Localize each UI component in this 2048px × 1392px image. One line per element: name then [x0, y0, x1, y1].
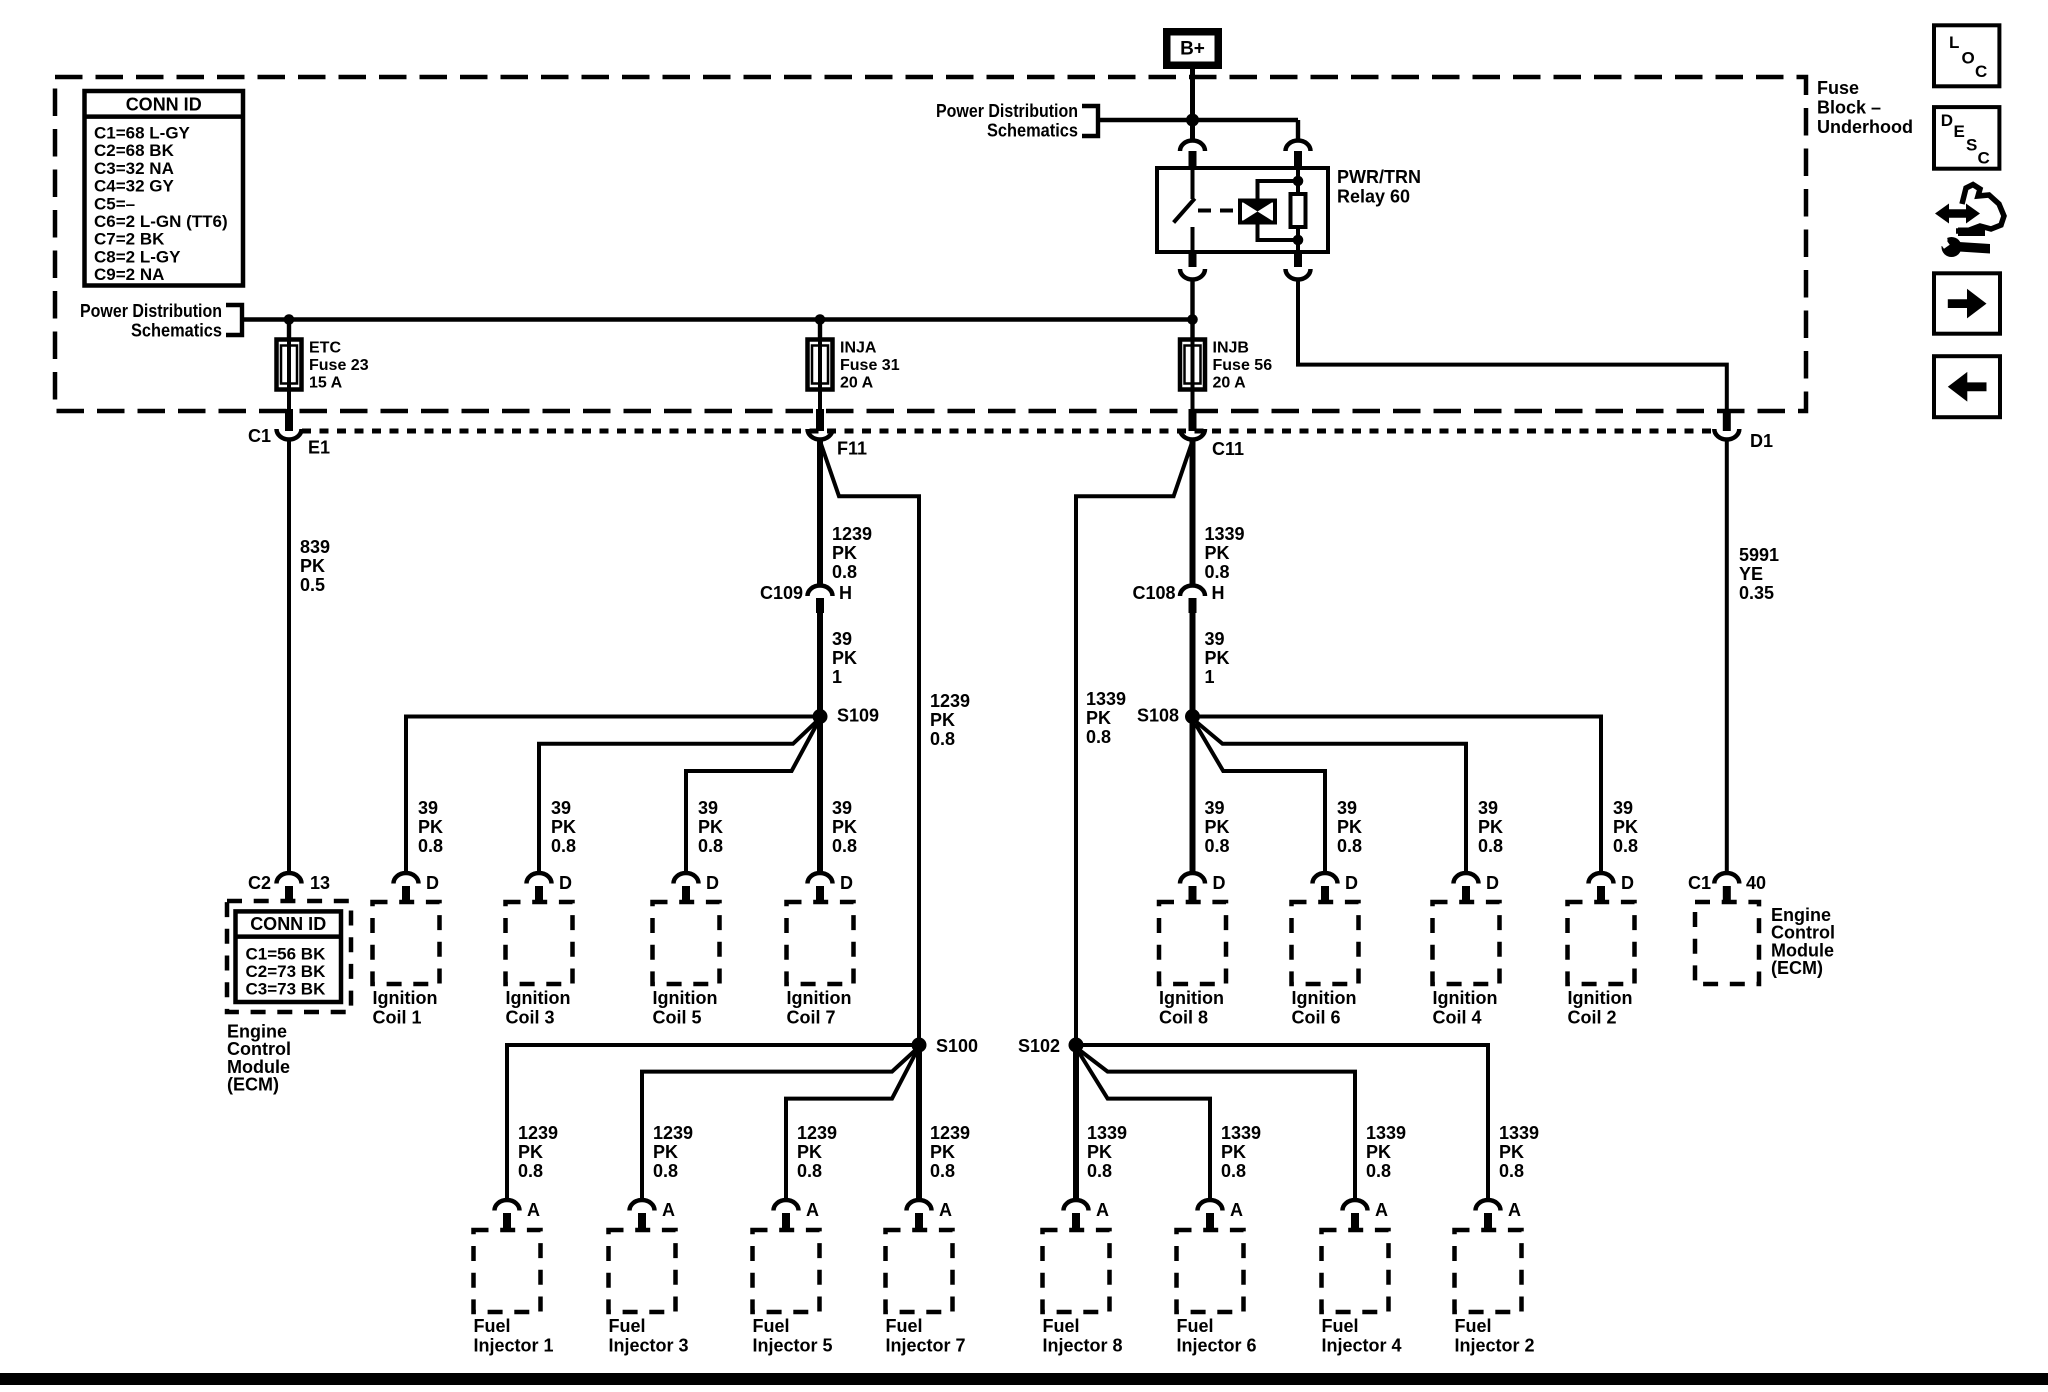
svg-text:Schematics: Schematics	[987, 121, 1078, 141]
svg-text:CONN ID: CONN ID	[250, 914, 326, 934]
svg-text:D: D	[1941, 111, 1953, 130]
svg-text:0.8: 0.8	[418, 836, 443, 856]
svg-text:1239: 1239	[653, 1123, 693, 1143]
svg-text:A: A	[1096, 1200, 1109, 1220]
svg-text:D: D	[1213, 873, 1226, 893]
svg-text:S108: S108	[1137, 706, 1179, 726]
svg-text:C3=32 NA: C3=32 NA	[94, 159, 174, 178]
svg-text:PK: PK	[1337, 817, 1362, 837]
svg-text:B+: B+	[1180, 39, 1205, 60]
svg-text:Coil 7: Coil 7	[787, 1008, 836, 1028]
svg-text:PK: PK	[1205, 817, 1230, 837]
svg-text:1239: 1239	[930, 1123, 970, 1143]
svg-text:Ignition: Ignition	[506, 988, 571, 1008]
svg-text:0.8: 0.8	[930, 729, 955, 749]
svg-text:YE: YE	[1739, 564, 1763, 584]
svg-text:A: A	[806, 1200, 819, 1220]
svg-text:0.8: 0.8	[832, 836, 857, 856]
svg-text:1239: 1239	[930, 691, 970, 711]
svg-text:C2: C2	[248, 873, 271, 893]
svg-text:INJB: INJB	[1213, 340, 1249, 357]
svg-text:D: D	[426, 873, 439, 893]
svg-text:C3=73 BK: C3=73 BK	[246, 980, 327, 999]
svg-text:Coil 1: Coil 1	[373, 1008, 422, 1028]
svg-text:Fuse: Fuse	[1817, 78, 1859, 98]
svg-text:C1: C1	[1688, 873, 1711, 893]
svg-text:PK: PK	[1221, 1142, 1246, 1162]
svg-text:C8=2 L-GY: C8=2 L-GY	[94, 247, 181, 266]
svg-text:0.8: 0.8	[1499, 1161, 1524, 1181]
svg-text:C: C	[1975, 62, 1987, 81]
svg-text:1339: 1339	[1221, 1123, 1261, 1143]
svg-text:839: 839	[300, 537, 330, 557]
svg-text:D: D	[706, 873, 719, 893]
svg-text:5991: 5991	[1739, 545, 1779, 565]
svg-text:Coil 3: Coil 3	[506, 1008, 555, 1028]
svg-text:PK: PK	[1087, 1142, 1112, 1162]
svg-text:Fuel: Fuel	[1322, 1316, 1359, 1336]
svg-text:0.8: 0.8	[930, 1161, 955, 1181]
svg-text:C6=2 L-GN (TT6): C6=2 L-GN (TT6)	[94, 212, 228, 231]
svg-text:PK: PK	[698, 817, 723, 837]
svg-text:INJA: INJA	[840, 340, 877, 357]
svg-text:PK: PK	[1086, 708, 1111, 728]
svg-text:PK: PK	[930, 1142, 955, 1162]
svg-text:PK: PK	[1205, 648, 1230, 668]
svg-text:1239: 1239	[832, 524, 872, 544]
svg-text:Relay 60: Relay 60	[1337, 187, 1410, 207]
svg-text:PK: PK	[1205, 543, 1230, 563]
svg-text:0.8: 0.8	[832, 562, 857, 582]
svg-text:20 A: 20 A	[840, 375, 874, 392]
svg-text:C109: C109	[760, 583, 803, 603]
svg-text:E: E	[1954, 122, 1965, 141]
svg-text:PK: PK	[418, 817, 443, 837]
svg-text:Injector 3: Injector 3	[609, 1336, 689, 1356]
svg-text:Coil 8: Coil 8	[1159, 1008, 1208, 1028]
svg-text:F11: F11	[837, 439, 867, 459]
svg-text:0.8: 0.8	[653, 1161, 678, 1181]
svg-text:0.8: 0.8	[1613, 836, 1638, 856]
svg-text:PK: PK	[518, 1142, 543, 1162]
svg-text:Coil 2: Coil 2	[1568, 1008, 1617, 1028]
svg-text:Ignition: Ignition	[653, 988, 718, 1008]
svg-text:0.8: 0.8	[1205, 836, 1230, 856]
svg-text:PK: PK	[653, 1142, 678, 1162]
svg-text:20 A: 20 A	[1213, 375, 1247, 392]
svg-text:39: 39	[1205, 629, 1225, 649]
svg-text:PWR/TRN: PWR/TRN	[1337, 167, 1421, 187]
svg-text:Injector 4: Injector 4	[1322, 1336, 1402, 1356]
svg-text:C1: C1	[248, 426, 271, 446]
svg-text:PK: PK	[1499, 1142, 1524, 1162]
svg-text:D: D	[559, 873, 572, 893]
svg-text:Injector 1: Injector 1	[474, 1336, 554, 1356]
svg-text:A: A	[1230, 1200, 1243, 1220]
svg-text:PK: PK	[832, 648, 857, 668]
svg-text:Fuse 31: Fuse 31	[840, 357, 900, 374]
svg-text:39: 39	[1205, 798, 1225, 818]
svg-text:13: 13	[310, 873, 330, 893]
svg-text:0.5: 0.5	[300, 575, 325, 595]
svg-text:Fuel: Fuel	[474, 1316, 511, 1336]
svg-text:Schematics: Schematics	[131, 320, 222, 340]
svg-text:39: 39	[551, 798, 571, 818]
svg-text:Fuel: Fuel	[609, 1316, 646, 1336]
svg-text:C1=56 BK: C1=56 BK	[246, 945, 327, 964]
svg-text:39: 39	[832, 629, 852, 649]
svg-text:1339: 1339	[1366, 1123, 1406, 1143]
svg-text:(ECM): (ECM)	[1771, 958, 1823, 978]
svg-text:Injector 8: Injector 8	[1043, 1336, 1123, 1356]
svg-text:1239: 1239	[797, 1123, 837, 1143]
svg-text:0.8: 0.8	[1366, 1161, 1391, 1181]
svg-text:Coil 6: Coil 6	[1292, 1008, 1341, 1028]
svg-text:Injector 5: Injector 5	[753, 1336, 833, 1356]
svg-text:D1: D1	[1750, 431, 1773, 451]
svg-text:39: 39	[698, 798, 718, 818]
svg-text:39: 39	[832, 798, 852, 818]
svg-text:0.8: 0.8	[1087, 1161, 1112, 1181]
svg-text:S102: S102	[1018, 1036, 1060, 1056]
svg-text:PK: PK	[930, 710, 955, 730]
svg-text:H: H	[1212, 583, 1225, 603]
svg-text:1: 1	[832, 667, 842, 687]
svg-text:Ignition: Ignition	[1159, 988, 1224, 1008]
svg-text:39: 39	[1337, 798, 1357, 818]
svg-text:S100: S100	[936, 1036, 978, 1056]
svg-text:PK: PK	[300, 556, 325, 576]
svg-text:1: 1	[1205, 667, 1215, 687]
svg-text:Ignition: Ignition	[373, 988, 438, 1008]
svg-text:1339: 1339	[1086, 689, 1126, 709]
svg-text:C11: C11	[1212, 439, 1244, 459]
svg-text:C4=32 GY: C4=32 GY	[94, 177, 175, 196]
svg-text:H: H	[839, 583, 852, 603]
svg-text:O: O	[1962, 49, 1975, 68]
svg-text:A: A	[939, 1200, 952, 1220]
svg-text:A: A	[1375, 1200, 1388, 1220]
svg-text:PK: PK	[1366, 1142, 1391, 1162]
svg-text:S: S	[1966, 135, 1977, 154]
svg-text:PK: PK	[1613, 817, 1638, 837]
svg-text:C1=68 L-GY: C1=68 L-GY	[94, 124, 191, 143]
svg-text:C2=68 BK: C2=68 BK	[94, 141, 175, 160]
svg-text:15 A: 15 A	[309, 375, 343, 392]
svg-text:D: D	[1621, 873, 1634, 893]
svg-text:C: C	[1978, 148, 1990, 167]
svg-text:PK: PK	[832, 543, 857, 563]
svg-text:1239: 1239	[518, 1123, 558, 1143]
svg-text:39: 39	[1613, 798, 1633, 818]
svg-text:Fuel: Fuel	[1177, 1316, 1214, 1336]
svg-text:Injector 6: Injector 6	[1177, 1336, 1257, 1356]
svg-text:0.8: 0.8	[551, 836, 576, 856]
svg-text:PK: PK	[797, 1142, 822, 1162]
svg-text:Fuel: Fuel	[1043, 1316, 1080, 1336]
svg-text:39: 39	[1478, 798, 1498, 818]
svg-text:0.8: 0.8	[1337, 836, 1362, 856]
svg-text:0.35: 0.35	[1739, 583, 1774, 603]
svg-text:0.8: 0.8	[1221, 1161, 1246, 1181]
svg-text:Injector 2: Injector 2	[1455, 1336, 1535, 1356]
svg-text:L: L	[1949, 33, 1959, 52]
svg-text:CONN ID: CONN ID	[126, 95, 202, 115]
svg-text:0.8: 0.8	[1086, 727, 1111, 747]
svg-text:0.8: 0.8	[1478, 836, 1503, 856]
svg-text:Coil 5: Coil 5	[653, 1008, 702, 1028]
svg-text:Ignition: Ignition	[787, 988, 852, 1008]
svg-text:0.8: 0.8	[518, 1161, 543, 1181]
svg-text:Fuse 23: Fuse 23	[309, 357, 369, 374]
svg-text:Ignition: Ignition	[1292, 988, 1357, 1008]
svg-text:1339: 1339	[1205, 524, 1245, 544]
svg-text:(ECM): (ECM)	[227, 1075, 279, 1095]
svg-text:A: A	[662, 1200, 675, 1220]
svg-text:1339: 1339	[1499, 1123, 1539, 1143]
svg-text:Ignition: Ignition	[1433, 988, 1498, 1008]
svg-text:C5=–: C5=–	[94, 194, 135, 213]
svg-text:Fuel: Fuel	[886, 1316, 923, 1336]
svg-text:Fuse 56: Fuse 56	[1213, 357, 1273, 374]
svg-text:Block –: Block –	[1817, 98, 1881, 118]
svg-text:C2=73 BK: C2=73 BK	[246, 962, 327, 981]
svg-text:ETC: ETC	[309, 340, 341, 357]
svg-text:0.8: 0.8	[698, 836, 723, 856]
svg-text:Injector 7: Injector 7	[886, 1336, 966, 1356]
svg-text:D: D	[1345, 873, 1358, 893]
svg-text:40: 40	[1746, 873, 1766, 893]
svg-text:D: D	[840, 873, 853, 893]
svg-text:Underhood: Underhood	[1817, 117, 1913, 137]
svg-text:C9=2 NA: C9=2 NA	[94, 265, 164, 284]
svg-text:PK: PK	[832, 817, 857, 837]
svg-text:C108: C108	[1132, 583, 1175, 603]
svg-text:Power Distribution: Power Distribution	[80, 301, 222, 321]
svg-text:Power Distribution: Power Distribution	[936, 101, 1078, 121]
svg-text:Coil 4: Coil 4	[1433, 1008, 1482, 1028]
svg-text:D: D	[1486, 873, 1499, 893]
svg-text:S109: S109	[837, 706, 879, 726]
svg-text:1339: 1339	[1087, 1123, 1127, 1143]
svg-text:E1: E1	[308, 438, 330, 458]
svg-text:PK: PK	[1478, 817, 1503, 837]
svg-text:0.8: 0.8	[1205, 562, 1230, 582]
svg-text:0.8: 0.8	[797, 1161, 822, 1181]
svg-text:PK: PK	[551, 817, 576, 837]
svg-text:Ignition: Ignition	[1568, 988, 1633, 1008]
svg-text:A: A	[527, 1200, 540, 1220]
svg-text:Fuel: Fuel	[753, 1316, 790, 1336]
svg-text:39: 39	[418, 798, 438, 818]
svg-text:Fuel: Fuel	[1455, 1316, 1492, 1336]
svg-text:A: A	[1508, 1200, 1521, 1220]
svg-text:C7=2 BK: C7=2 BK	[94, 230, 165, 249]
